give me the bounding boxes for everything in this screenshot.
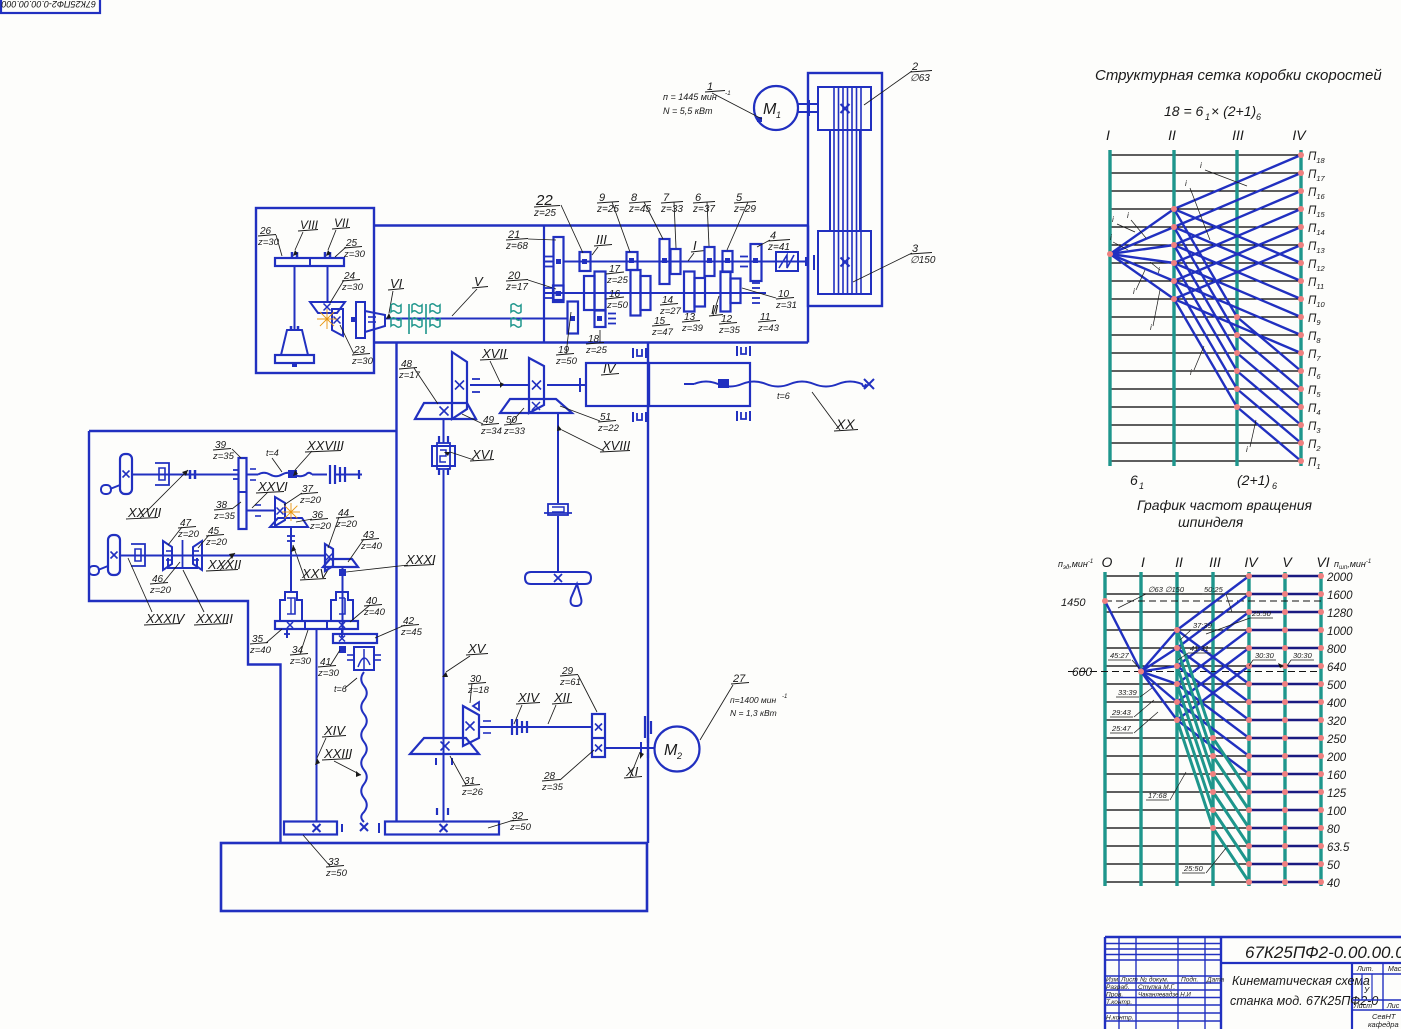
cone clutch VI [356, 302, 365, 338]
svg-text:z=68: z=68 [505, 241, 528, 252]
gear block 15 z47 + 14 z27 [631, 270, 641, 316]
wire left housing top edge [89, 430, 397, 432]
svg-text:29:43: 29:43 [1111, 708, 1132, 717]
svg-text:600: 600 [1072, 665, 1092, 679]
auxiliary bevel box VII-VIII [256, 208, 374, 373]
ray motor belt O-I [1105, 601, 1141, 672]
svg-text:z=20: z=20 [335, 519, 358, 530]
svg-text:400: 400 [1327, 698, 1347, 710]
title block left table verticals [1118, 937, 1120, 1029]
svg-text:VI: VI [1316, 554, 1329, 570]
svg-text:Т.контр.: Т.контр. [1106, 999, 1132, 1006]
svg-text:Чаканлевадзе Н.И: Чаканлевадзе Н.И [1138, 992, 1191, 999]
bevel mesh star 36-37 [291, 511, 300, 513]
svg-text:М: М [664, 742, 678, 759]
coupling on shaft XXVIII [329, 465, 331, 484]
grid horizontal lines [1110, 460, 1301, 462]
svg-text:37:39: 37:39 [1193, 621, 1213, 630]
svg-text:100: 100 [1327, 806, 1347, 818]
svg-text:25:50: 25:50 [1183, 864, 1204, 873]
svg-text:17:68: 17:68 [1148, 791, 1168, 800]
wire left housing step [89, 431, 281, 843]
electromagnetic clutch group 2 teal [412, 304, 422, 314]
svg-text:1280: 1280 [1327, 608, 1353, 620]
svg-text:п=1400 мин: п=1400 мин [730, 695, 776, 705]
bevel gear 36 z20 [270, 518, 308, 527]
bevel mesh star [327, 318, 337, 320]
svg-text:i: i [1110, 233, 1112, 242]
wire shaft XIV vertical [316, 629, 318, 822]
svg-text:z=20: z=20 [177, 529, 200, 540]
gear 21 z68 [554, 237, 564, 300]
gear symbol 35 block [280, 592, 302, 621]
svg-text:i: i [1127, 211, 1129, 220]
rays II-IV ascending [1174, 155, 1301, 209]
shaft I-III axis [563, 261, 806, 263]
wire main gearbox housing top edge [373, 224, 808, 226]
svg-text:z=30: z=30 [289, 656, 312, 667]
graph vertical lines teal [1103, 572, 1106, 886]
svg-text:z=40: z=40 [363, 607, 386, 618]
svg-text:Структурная сетка коробки скор: Структурная сетка коробки скоростей [1095, 67, 1382, 84]
gear 8 z45 [660, 239, 670, 284]
svg-text:50: 50 [1327, 860, 1340, 872]
title block frame [1105, 936, 1401, 938]
gear symbol 40 block [331, 592, 353, 621]
gear 19 z50 [568, 302, 579, 334]
svg-text:z=30: z=30 [343, 249, 366, 260]
wire shaft XII axis [479, 726, 592, 728]
rays II-IV ascending blue [1177, 576, 1249, 630]
svg-text:67К25ПФ2-0.00.00.000: 67К25ПФ2-0.00.00.000 [1, 0, 96, 9]
svg-text:I: I [693, 238, 697, 253]
svg-text:z=18: z=18 [467, 685, 490, 696]
svg-text:250: 250 [1326, 734, 1347, 746]
svg-text:О: О [1102, 554, 1113, 570]
svg-text:z=30: z=30 [341, 282, 364, 293]
svg-text:z=50: z=50 [606, 300, 629, 311]
rays III-IV teal [1213, 738, 1249, 792]
electromagnetic clutch group 1 teal [391, 304, 401, 314]
graph nodes [1102, 598, 1108, 604]
svg-text:2: 2 [676, 751, 682, 761]
gear 46 z20 bracket [168, 558, 197, 568]
svg-text:t=6: t=6 [777, 391, 790, 401]
bevel gear 30 z18 [463, 706, 479, 746]
title block name cell [1351, 963, 1353, 1029]
svg-text:z=61: z=61 [559, 677, 581, 688]
bevel 45 z20 [193, 541, 202, 570]
svg-text:i: i [1190, 368, 1192, 377]
coupling on shaft XVIII [548, 504, 568, 515]
svg-text:25:50: 25:50 [1251, 609, 1272, 618]
bevel gear 23 z30 [332, 309, 343, 336]
title block lit mass cells [1352, 973, 1401, 975]
svg-text:i: i [1150, 323, 1152, 332]
svg-text:Кинематическая схема: Кинематическая схема [1232, 974, 1370, 988]
wire shaft VII vertical [327, 266, 329, 302]
svg-text:Лист: Лист [1120, 977, 1138, 984]
svg-text:IV: IV [1244, 554, 1259, 570]
ratchet on shaft XXXII [131, 544, 145, 566]
feed box housing right [649, 363, 750, 406]
svg-text:Лис: Лис [1386, 1003, 1400, 1010]
svg-text:z=25: z=25 [533, 208, 556, 219]
svg-text:z=17: z=17 [398, 370, 421, 381]
wire shaft XVI vertical [443, 419, 445, 443]
svg-text:6: 6 [1272, 481, 1277, 491]
svg-text:i: i [1246, 445, 1248, 454]
wire worm t=6 vertical wavy [361, 672, 367, 822]
rays II-IV shallow descending [1174, 209, 1301, 263]
svg-text:Лист: Лист [1353, 1003, 1372, 1010]
bevel 44 z20 [325, 544, 333, 571]
motor M2 [655, 727, 700, 772]
svg-text:i: i [1185, 179, 1187, 188]
svg-text:25:47: 25:47 [1111, 724, 1132, 733]
svg-text:80: 80 [1327, 824, 1340, 836]
svg-text:z=31: z=31 [775, 300, 797, 311]
svg-text:z=41: z=41 [767, 242, 790, 253]
bevel 47 z20 [163, 541, 172, 570]
svg-text:z=30: z=30 [317, 668, 340, 679]
svg-text:Пров.: Пров. [1106, 992, 1123, 999]
gear 5 z29 [723, 251, 733, 272]
svg-text:-1: -1 [782, 694, 787, 700]
svg-text:6: 6 [1256, 112, 1261, 122]
svg-text:i: i [1158, 266, 1160, 275]
svg-text:z=30: z=30 [257, 237, 280, 248]
svg-text:II: II [1175, 554, 1183, 570]
gear bar 26-25 on shafts VII VIII [275, 258, 344, 266]
pulley B2 top flange [818, 87, 871, 130]
pulley vertical stripes [833, 87, 835, 294]
svg-text:z=20: z=20 [149, 585, 172, 596]
wire motor M1 shaft to pulley [798, 103, 818, 105]
svg-text:z=20: z=20 [299, 495, 322, 506]
wire shaft XXV vertical [290, 527, 292, 592]
svg-text:125: 125 [1327, 788, 1347, 800]
svg-text:II: II [1168, 127, 1176, 143]
svg-text:z=25: z=25 [585, 345, 608, 356]
svg-text:45:27: 45:27 [1110, 651, 1130, 660]
svg-text:67К25ПФ2-0.00.00.000.0: 67К25ПФ2-0.00.00.000.0 [1245, 943, 1401, 962]
svg-text:z=26: z=26 [461, 787, 484, 798]
spindle pulley housing [808, 73, 882, 306]
svg-text:320: 320 [1327, 716, 1347, 728]
gear 20 z17 [553, 286, 564, 303]
title block drawing number cell [1221, 962, 1401, 964]
svg-text:z=50: z=50 [555, 356, 578, 367]
ray fan I-II [1110, 209, 1174, 254]
svg-text:800: 800 [1327, 644, 1347, 656]
cone clutch bell on shaft VIII [281, 330, 308, 355]
gear 22 z25 [580, 252, 591, 271]
feed box IV [586, 363, 649, 406]
document stamp (rotated drawing number box) [1, 0, 100, 13]
wire left wall of column [395, 343, 397, 823]
svg-text:1450: 1450 [1061, 597, 1086, 609]
electromagnetic clutch group 3 teal [511, 304, 521, 314]
svg-text:z=30: z=30 [351, 356, 374, 367]
wire shaft to box IV [547, 384, 586, 386]
svg-text:33:39: 33:39 [1118, 688, 1138, 697]
svg-text:1000: 1000 [1327, 626, 1353, 638]
svg-text:z=47: z=47 [651, 327, 674, 338]
wire shaft XVIII vertical [557, 413, 559, 503]
wire shaft XX wavy [684, 383, 694, 385]
ray fan I-II six speeds [1141, 630, 1177, 672]
rays II-III steep descending [1174, 209, 1237, 317]
wire main gearbox housing bottom edge [373, 341, 808, 343]
svg-text:График частот вращения: График частот вращения [1137, 497, 1313, 513]
svg-text:40: 40 [1327, 878, 1340, 890]
svg-text:50:25: 50:25 [1204, 585, 1224, 594]
bevel gear 50 z33 pair [529, 358, 544, 413]
svg-text:i: i [1200, 161, 1202, 170]
shaft II axis [544, 292, 766, 294]
wire shaft XI to motor M2 [605, 747, 655, 749]
gear 18 z25 [595, 311, 606, 328]
wire shaft XXVI axis [247, 510, 276, 512]
wire shaft XXVIII with leadscrew t=4 [247, 474, 259, 476]
svg-text:z=39: z=39 [681, 323, 704, 334]
gear 6 z37 [705, 247, 715, 276]
svg-text:640: 640 [1327, 662, 1347, 674]
svg-text:Изм.: Изм. [1106, 977, 1120, 984]
svg-text:Лит.: Лит. [1356, 966, 1373, 973]
bevel 43 z40 [323, 559, 358, 567]
rays II-III teal steep [1177, 630, 1213, 738]
svg-text:∅63: ∅63 [910, 73, 930, 84]
svg-text:IV: IV [1292, 127, 1307, 143]
svg-text:Разраб.: Разраб. [1106, 983, 1130, 991]
gear bar 35-34 [275, 621, 358, 629]
svg-text:63.5: 63.5 [1327, 842, 1350, 854]
svg-text:30:30: 30:30 [1293, 651, 1313, 660]
svg-text:z=20: z=20 [205, 537, 228, 548]
svg-text:500: 500 [1327, 680, 1347, 692]
svg-text:× (2+1): × (2+1) [1211, 103, 1256, 119]
svg-text:z=35: z=35 [541, 782, 564, 793]
gear block 11 z43 + 10 z31 [721, 272, 731, 312]
wire right wall of column [647, 343, 649, 844]
svg-text:z=37: z=37 [692, 204, 715, 215]
svg-text:∅150: ∅150 [910, 255, 936, 266]
bearing marks above gear 32 [436, 808, 438, 815]
ratchet on shaft XXVII [155, 463, 169, 485]
handwheel on shaft XXVII [120, 454, 132, 494]
svg-text:№ докум.: № докум. [1140, 976, 1169, 984]
wire shaft XXXI vertical [342, 567, 344, 634]
svg-text:1: 1 [1205, 112, 1210, 122]
svg-text:шпинделя: шпинделя [1178, 514, 1244, 530]
rays III-IV descending [1237, 317, 1301, 371]
wire gearbox right wall upper [807, 226, 809, 343]
bevel gear 37 z20 [275, 497, 285, 526]
bearing symbols around shaft XX [736, 346, 738, 356]
wire shaft XXVII axis [132, 474, 239, 476]
svg-text:III: III [1232, 127, 1244, 143]
svg-text:z=33: z=33 [660, 204, 683, 215]
safety clutch XVI symbol [432, 446, 455, 466]
svg-text:z=40: z=40 [360, 541, 383, 552]
dashed line 600 [1068, 671, 1321, 673]
wire gearbox divider [543, 226, 545, 343]
gear block 13 z39 + 12 z35 [684, 272, 695, 312]
navy spindle segments IV-VI [1249, 881, 1321, 884]
gear 4 z41 [751, 244, 762, 281]
svg-text:Дата: Дата [1206, 977, 1225, 984]
svg-text:z=22: z=22 [597, 423, 620, 434]
gear 7 z33 [671, 249, 681, 274]
svg-text:1: 1 [776, 110, 781, 120]
pulley axis cross marks [841, 104, 850, 113]
wire shaft XVII [470, 384, 529, 386]
gear bar 33 [284, 822, 337, 835]
svg-text:Масса: Масса [1388, 966, 1401, 973]
svg-text:i: i [1112, 215, 1114, 224]
svg-text:М: М [763, 101, 777, 118]
svg-text:кафедра: кафедра [1368, 1020, 1399, 1029]
svg-text:I: I [1106, 127, 1110, 143]
svg-text:z=43: z=43 [757, 323, 780, 334]
gear bar 39-38 [239, 458, 247, 529]
svg-text:У: У [1363, 986, 1370, 995]
wire shaft XXXII axis [120, 555, 325, 557]
bevel gear 48 z17 pair [452, 352, 467, 419]
svg-text:∅63 ∅150: ∅63 ∅150 [1148, 585, 1185, 594]
svg-text:z=50: z=50 [509, 822, 532, 833]
handle on shaft XVIII [525, 572, 591, 584]
svg-text:18 = 6: 18 = 6 [1164, 103, 1204, 119]
bevel gear 24 z30 [310, 302, 345, 313]
bevel gear 31 z26 [410, 738, 479, 754]
pulley middle column [830, 130, 860, 231]
coupling on shaft XII [511, 719, 513, 735]
grid vertical shaft lines teal [1108, 150, 1111, 466]
svg-text:30:30: 30:30 [1255, 651, 1275, 660]
svg-text:Подп.: Подп. [1181, 976, 1198, 984]
svg-text:200: 200 [1326, 752, 1347, 764]
gear bar 32 [385, 822, 499, 835]
svg-text:I: I [1141, 554, 1145, 570]
svg-text:z=35: z=35 [718, 325, 741, 336]
svg-text:z=25: z=25 [606, 275, 629, 286]
svg-text:i: i [1133, 287, 1135, 296]
overrunning clutch 41 [354, 647, 374, 670]
pulley B3 bottom flange [818, 231, 871, 294]
gear bar 42 [333, 634, 377, 643]
svg-text:z=20: z=20 [309, 521, 332, 532]
svg-text:160: 160 [1327, 770, 1347, 782]
freewheel clutch on shaft I [776, 252, 798, 271]
svg-text:(2+1): (2+1) [1237, 472, 1270, 488]
svg-text:t=6: t=6 [334, 684, 347, 694]
svg-text:z=40: z=40 [249, 645, 272, 656]
dashed line 1450 [1105, 600, 1321, 602]
svg-text:1600: 1600 [1327, 590, 1353, 602]
svg-text:1: 1 [1139, 481, 1144, 491]
svg-text:N = 1,3 кВт: N = 1,3 кВт [730, 708, 777, 718]
svg-text:N = 5,5 кВт: N = 5,5 кВт [663, 106, 713, 116]
gear 9 z25 [627, 252, 638, 270]
svg-text:z=17: z=17 [505, 282, 528, 293]
svg-text:6: 6 [1130, 472, 1138, 488]
shaft V axis [386, 318, 544, 320]
rays II-IV descending blue [1177, 630, 1249, 684]
svg-text:III: III [1209, 554, 1221, 570]
wire shaft I into pulley [805, 257, 807, 266]
svg-text:2000: 2000 [1326, 572, 1353, 584]
svg-text:z=33: z=33 [503, 426, 526, 437]
svg-text:-1: -1 [725, 90, 731, 97]
svg-text:Н.контр.: Н.контр. [1106, 1015, 1134, 1022]
machine bed [221, 843, 647, 911]
motor M1 [754, 86, 798, 130]
svg-text:41:31: 41:31 [1190, 644, 1209, 653]
handwheel on shaft XXXII [108, 535, 120, 575]
gear 29 z61 [592, 714, 605, 757]
grid nodes [1107, 251, 1113, 257]
svg-text:t=4: t=4 [266, 448, 279, 458]
svg-text:z=34: z=34 [480, 426, 502, 437]
title block left table horizontals [1105, 943, 1221, 945]
svg-text:z=45: z=45 [400, 627, 423, 638]
wire shaft VIII vertical [294, 266, 296, 330]
svg-text:z=35: z=35 [213, 511, 236, 522]
gear block 17 z25 + 16 z50 [584, 276, 595, 310]
graph horizontal lines [1105, 881, 1321, 883]
svg-text:z=35: z=35 [212, 451, 235, 462]
svg-text:п = 1445 мин: п = 1445 мин [663, 92, 717, 102]
svg-text:Ступка М.Г.: Ступка М.Г. [1138, 984, 1175, 991]
svg-text:z=50: z=50 [325, 868, 348, 879]
